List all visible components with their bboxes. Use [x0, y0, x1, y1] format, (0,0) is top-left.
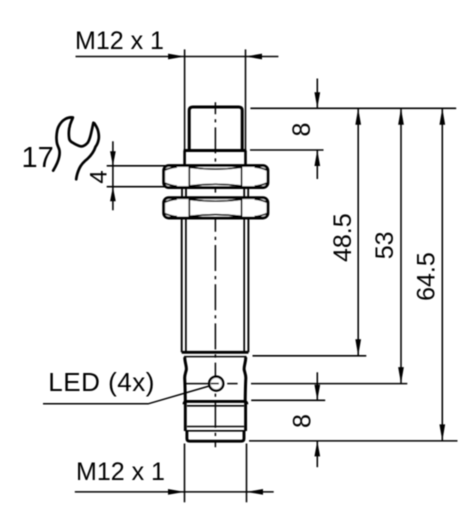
LED centerline right dash	[227, 383, 237, 385]
arrow M12 top left	[168, 54, 185, 60]
nut 1 chamfer arc top	[189, 167, 241, 169]
svg-text:LED (4x): LED (4x)	[48, 367, 155, 397]
arrow 53 bottom	[398, 367, 404, 384]
nut 2 facet line left	[188, 199, 190, 217]
bottom section outline	[184, 401, 247, 431]
dimension 48.5	[357, 108, 359, 355]
barrel step thick	[182, 351, 249, 354]
extension line right y440.9 (bottom)	[249, 440, 458, 442]
extension line right y355.8 (barrel end)	[253, 355, 367, 357]
LED circle	[209, 377, 223, 391]
LED housing right side	[244, 357, 246, 401]
extension line right y150	[250, 149, 324, 151]
barrel step thin	[184, 356, 247, 358]
arrow M12 top right	[246, 54, 263, 60]
bottom groove line 1	[187, 426, 244, 428]
nut 1 facet line right	[241, 167, 243, 187]
dim line vertical 4	[112, 141, 114, 210]
dimension 53	[400, 108, 402, 383]
extension line right y400.3	[251, 399, 325, 401]
LED centerline left dash	[185, 383, 209, 385]
svg-text:M12 x 1: M12 x 1	[75, 27, 164, 55]
dimension 64.5	[441, 108, 443, 441]
svg-text:48.5: 48.5	[329, 213, 357, 262]
svg-text:64.5: 64.5	[413, 252, 441, 301]
arrow M12 bottom left	[168, 489, 185, 495]
svg-text:M12 x 1: M12 x 1	[76, 458, 165, 486]
extension line right y383.6 (LED center)	[251, 383, 407, 385]
bottom section chamfer line	[187, 405, 244, 407]
svg-text:4: 4	[85, 170, 112, 183]
svg-text:17: 17	[22, 142, 54, 174]
arrow M12 bottom right	[247, 489, 264, 495]
arrow 48.5 top	[355, 108, 361, 125]
extension line top left	[184, 49, 186, 150]
extension line top right	[245, 49, 247, 150]
arrow 4 bottom	[110, 187, 116, 202]
nut 2 chamfer arc top	[189, 199, 241, 201]
bottom cap	[187, 431, 244, 441]
flange right side	[244, 151, 247, 166]
thread lines in nut gap	[182, 188, 248, 198]
dimension 8 bottom	[316, 372, 318, 400]
arrow 48.5 bottom	[355, 339, 361, 356]
LED housing left side	[185, 357, 187, 401]
leader line LED	[43, 386, 210, 404]
arrow 64.5 bottom	[439, 424, 445, 441]
dimension 8 top	[316, 79, 318, 109]
arrow 4 top	[110, 151, 116, 166]
nut 2 chamfer arc bottom	[164, 199, 268, 217]
extension line bottom right	[246, 444, 248, 503]
extension line bottom left	[184, 444, 186, 503]
dimension line M12 bottom	[75, 491, 274, 493]
connector block top	[189, 107, 242, 150]
bottom groove line 2	[185, 430, 245, 432]
svg-text:8: 8	[288, 414, 316, 428]
centerline vertical	[214, 102, 216, 447]
arrow 53 top	[398, 108, 404, 125]
extension line right y108	[250, 107, 456, 109]
nut 1 chamfer arc bottom	[164, 167, 268, 186]
svg-text:53: 53	[371, 231, 399, 259]
arrow 8 top lower	[314, 150, 320, 166]
arrow 8 top upper	[314, 92, 320, 108]
flange left side	[183, 151, 186, 166]
svg-text:8: 8	[288, 123, 316, 137]
arrow 64.5 top	[439, 108, 445, 125]
nut 2 facet line right	[241, 199, 243, 217]
LED center tick	[211, 383, 219, 385]
nut 1	[164, 166, 268, 188]
arrow 8 bottom lower	[314, 441, 320, 457]
step connector/flange	[184, 149, 247, 152]
barrel thread lines	[182, 218, 249, 352]
extension line nut top	[107, 165, 167, 167]
nut 1 facet line left	[188, 167, 190, 187]
arrow 8 bottom upper	[314, 385, 320, 401]
extension line nut bottom	[107, 186, 167, 188]
wrench icon	[53, 117, 99, 179]
nut 2	[164, 198, 268, 218]
dimension line M12 top	[76, 56, 279, 58]
